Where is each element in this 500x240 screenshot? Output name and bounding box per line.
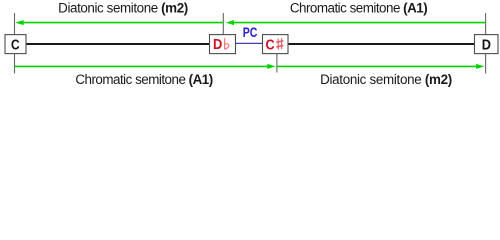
svg-text:D: D	[213, 36, 222, 53]
tick node D	[485, 13, 487, 35]
svg-text:Diatonic semitone (m2): Diatonic semitone (m2)	[58, 1, 188, 16]
svg-text:C: C	[265, 37, 274, 54]
tick node C	[14, 13, 16, 35]
svg-text:Diatonic semitone (m2): Diatonic semitone (m2)	[320, 72, 452, 87]
sharp symbol	[276, 38, 283, 50]
svg-text:Chromatic semitone (A1): Chromatic semitone (A1)	[75, 72, 212, 87]
svg-text:D: D	[482, 36, 491, 53]
flat symbol	[225, 38, 229, 49]
wire: blue PC line Db to C#	[235, 42, 263, 44]
arrow: diatonic semitone bottom (C# to D), head at right	[277, 65, 478, 67]
tick node C#	[276, 54, 278, 73]
arrow: diatonic semitone top (Db to C), head at left	[22, 22, 223, 24]
wire: main line C to Db	[26, 43, 210, 45]
svg-text:PC: PC	[243, 24, 258, 40]
node box C#	[263, 35, 289, 54]
tick node Db	[222, 13, 224, 35]
arrow: chromatic semitone bottom (C to C#), head at right	[15, 65, 270, 67]
svg-text:Chromatic semitone (A1): Chromatic semitone (A1)	[290, 1, 427, 16]
node box Db	[210, 35, 236, 54]
arrow: chromatic semitone top (D to Db), head at left	[232, 22, 486, 24]
wire: main line C# to D	[288, 43, 475, 45]
svg-text:C: C	[11, 36, 20, 53]
node box D	[475, 35, 499, 54]
node box C	[5, 35, 26, 54]
